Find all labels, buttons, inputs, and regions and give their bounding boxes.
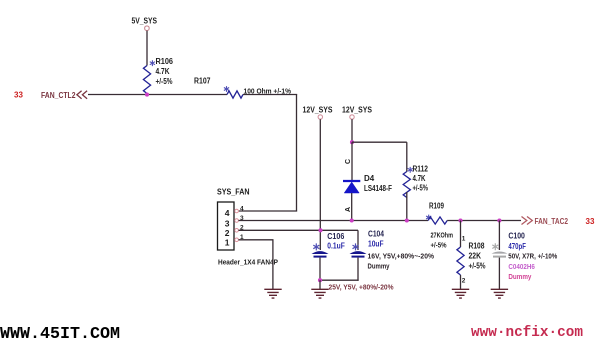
capacitor C104 top plate [350, 251, 367, 254]
svg-text:FAN_CTL2: FAN_CTL2 [41, 91, 76, 100]
header pin stub circle 3 [235, 219, 239, 223]
svg-text:R112: R112 [413, 165, 429, 174]
wire pin 3 net FAN_TAC2 [239, 220, 429, 222]
node 12V_SYS left power circle [318, 115, 322, 119]
svg-text:www·ncfix·com: www·ncfix·com [471, 324, 583, 341]
junction R112 bottom on net [405, 218, 409, 222]
svg-text:2: 2 [462, 278, 466, 285]
wire corner down to C104 [357, 230, 359, 250]
svg-text:4.7K: 4.7K [156, 67, 170, 76]
wire R106 bottom to FAN_CTL2 net [146, 94, 148, 95]
header pin stub circle 4 [235, 209, 239, 213]
junction on rail above ground [318, 278, 322, 282]
wire rail to ground [319, 280, 321, 289]
svg-text:C104: C104 [368, 229, 384, 238]
ground under caps [311, 289, 328, 298]
svg-text:R106: R106 [156, 57, 174, 66]
svg-text:10uF: 10uF [368, 240, 384, 249]
svg-text:WWW.45IT.COM: WWW.45IT.COM [0, 325, 120, 342]
capacitor C100 top plate (gray) [492, 252, 508, 254]
svg-text:1: 1 [462, 236, 466, 243]
wire R108 bottom [460, 275, 462, 289]
wire 12V to D4 cathode [351, 142, 353, 180]
wire C100 top [498, 221, 500, 251]
svg-text:R108: R108 [469, 242, 485, 251]
header pin stub circle 2 [235, 229, 239, 233]
resistor R112 zigzag [403, 172, 410, 198]
off-page connector chevron FAN_TAC2 [522, 217, 533, 225]
wire R109 to FAN_TAC2 connector [447, 220, 521, 222]
junction D4 anode on net [350, 218, 354, 222]
svg-text:C0402H6: C0402H6 [508, 262, 535, 271]
svg-text:4: 4 [240, 205, 244, 212]
resistor R106 variant star [150, 60, 155, 66]
diode D4 triangle [344, 182, 359, 193]
wire R108 top [460, 221, 462, 248]
svg-text:FAN_TAC2: FAN_TAC2 [535, 217, 569, 226]
svg-text:0.1uF: 0.1uF [327, 241, 345, 250]
capacitor C106 bottom plate [314, 256, 327, 258]
wire down to R112 [406, 142, 408, 171]
svg-text:25V, Y5V, +80%/-20%: 25V, Y5V, +80%/-20% [329, 283, 394, 292]
svg-text:D4: D4 [364, 174, 375, 183]
svg-text:SYS_FAN: SYS_FAN [217, 188, 250, 197]
resistor R107 variant star [224, 86, 229, 92]
wire corner down to header pin 4 [296, 94, 298, 212]
wire pin 1 to ground corner [239, 239, 274, 241]
svg-text:1: 1 [225, 237, 230, 247]
header pin stub circle 1 [235, 238, 239, 242]
wire branch to R112 top [352, 141, 407, 143]
svg-text:+/-5%: +/-5% [413, 184, 429, 193]
wire FAN_CTL2 to R107 [88, 94, 227, 96]
capacitor C106 variant star [313, 243, 319, 250]
svg-text:2: 2 [225, 228, 230, 238]
svg-text:R107: R107 [194, 77, 211, 86]
svg-text:22K: 22K [469, 252, 482, 261]
resistor R109 variant star [426, 215, 431, 221]
svg-text:33: 33 [586, 217, 595, 226]
svg-text:16V, Y5V,+80%~-20%: 16V, Y5V,+80%~-20% [368, 252, 435, 261]
off-page connector chevron FAN_CTL2 [77, 91, 87, 99]
capacitor C104 variant star [353, 243, 359, 250]
ground under R108 [452, 289, 469, 298]
wire C106 bottom down [319, 258, 321, 281]
resistor R112 variant star [408, 167, 413, 173]
capacitor C100 variant star (gray dummy) [492, 243, 498, 250]
wire R107 to corner [243, 94, 297, 96]
svg-text:C: C [345, 159, 352, 164]
capacitor C100 bottom plate (gray) [493, 256, 506, 258]
diode D4 cathode bar [343, 180, 360, 182]
svg-text:4: 4 [225, 208, 230, 218]
junction R108 top [458, 218, 462, 222]
wire cap ground rail [319, 279, 358, 281]
junction R106 to FAN_CTL2 [145, 93, 149, 97]
resistor R107 zigzag [227, 91, 243, 98]
node 12V_SYS right power circle [350, 115, 354, 119]
svg-text:+/-5%: +/-5% [469, 262, 486, 271]
ground under pin 1 [264, 289, 281, 298]
wire pin 2 net to 12V [239, 229, 359, 231]
wire 12V_SYS left down to C106 [319, 119, 321, 250]
header box [218, 202, 235, 250]
svg-text:+/-5%: +/-5% [156, 77, 173, 86]
svg-text:C106: C106 [327, 232, 344, 241]
junction C100 top [497, 218, 501, 222]
svg-text:Header_1X4 FAN4P: Header_1X4 FAN4P [218, 258, 278, 267]
junction pin2 net with 12V vertical [318, 228, 322, 232]
svg-text:470pF: 470pF [508, 242, 526, 251]
wire 12V_SYS right down to junction [351, 119, 353, 142]
svg-text:27KOhm: 27KOhm [431, 231, 454, 240]
svg-text:12V_SYS: 12V_SYS [342, 106, 373, 115]
svg-text:Dummy: Dummy [368, 262, 391, 271]
wire pin1 corner down [272, 240, 274, 289]
svg-text:5V_SYS: 5V_SYS [132, 17, 158, 26]
resistor R109 zigzag [428, 217, 447, 224]
svg-text:+/-5%: +/-5% [431, 241, 447, 250]
svg-text:C100: C100 [508, 232, 525, 241]
svg-text:4.7K: 4.7K [413, 174, 426, 183]
wire to pin 4 [239, 210, 297, 212]
ground under C100 [491, 289, 508, 298]
svg-text:33: 33 [14, 91, 23, 100]
node 5V_SYS power circle [145, 26, 150, 31]
wire D4 anode down [351, 193, 353, 221]
svg-text:12V_SYS: 12V_SYS [303, 106, 334, 115]
svg-text:A: A [345, 207, 352, 212]
wire R112 bottom to net [406, 192, 408, 221]
svg-text:R109: R109 [429, 202, 444, 211]
svg-text:LS4148-F: LS4148-F [364, 184, 392, 193]
junction at 12V branch [350, 140, 354, 144]
svg-text:Dummy: Dummy [508, 272, 532, 281]
capacitor C104 bottom plate [352, 256, 365, 258]
resistor R106 zigzag [143, 66, 150, 94]
svg-text:50V, X7R, +/-10%: 50V, X7R, +/-10% [508, 252, 557, 261]
wire 5V_SYS to R106 top [146, 31, 148, 66]
resistor R108 zigzag [457, 247, 464, 275]
svg-text:3: 3 [225, 218, 230, 228]
wire C104 bottom down [357, 258, 359, 281]
wire C100 bottom [498, 258, 500, 290]
capacitor C106 top plate [312, 251, 329, 254]
